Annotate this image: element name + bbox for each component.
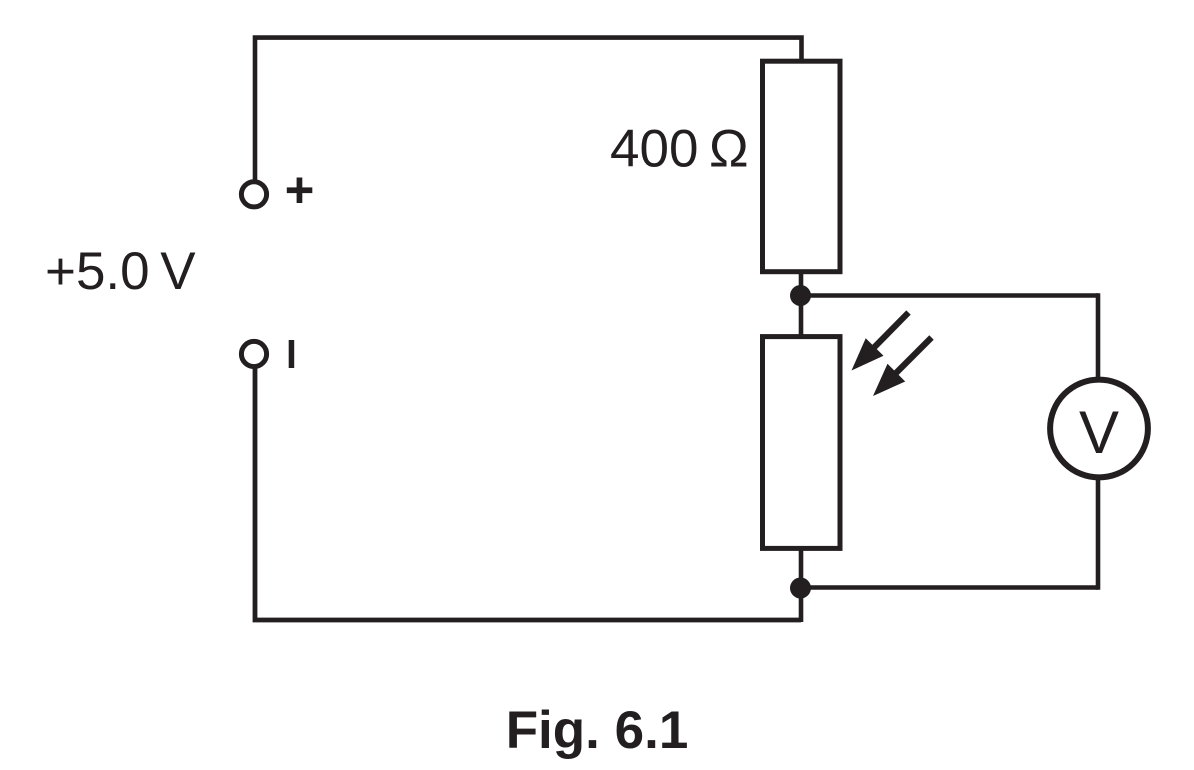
light arrow 2 onto LDR [873,338,932,397]
resistor R1 400 ohm (body) [763,61,841,272]
svg-text:+5.0 V: +5.0 V [45,242,196,301]
wire: resistor bottom to node A to LDR top [799,271,804,337]
voltmeter V (circle symbol) [1050,380,1148,478]
light arrow 1 onto LDR [852,313,909,371]
svg-text:400 Ω: 400 Ω [610,120,749,179]
wire: node A across to voltmeter branch [801,293,1099,298]
wire: right branch down to voltmeter top [1096,293,1101,380]
node B (junction dot) [790,578,811,599]
svg-text:V: V [1079,399,1119,466]
LDR (light dependent resistor body) [763,337,841,549]
wire: left return from - terminal down to bottom rail [255,367,801,621]
terminal - (open circle) [241,341,266,366]
label + (positive terminal mark) [287,178,313,204]
wire: LDR bottom to node B to bottom rail [799,548,804,622]
svg-text:Fig. 6.1: Fig. 6.1 [506,701,689,760]
wire: voltmeter bottom down to lower rail [1096,477,1101,590]
label - (negative terminal mark, vertical bar) [289,340,295,368]
wire: node B across to voltmeter branch bottom [801,585,1099,590]
wire: top rail from + terminal up and across to resistor top [255,38,802,181]
node A (junction dot) [790,285,811,306]
terminal + (open circle) [241,182,266,207]
